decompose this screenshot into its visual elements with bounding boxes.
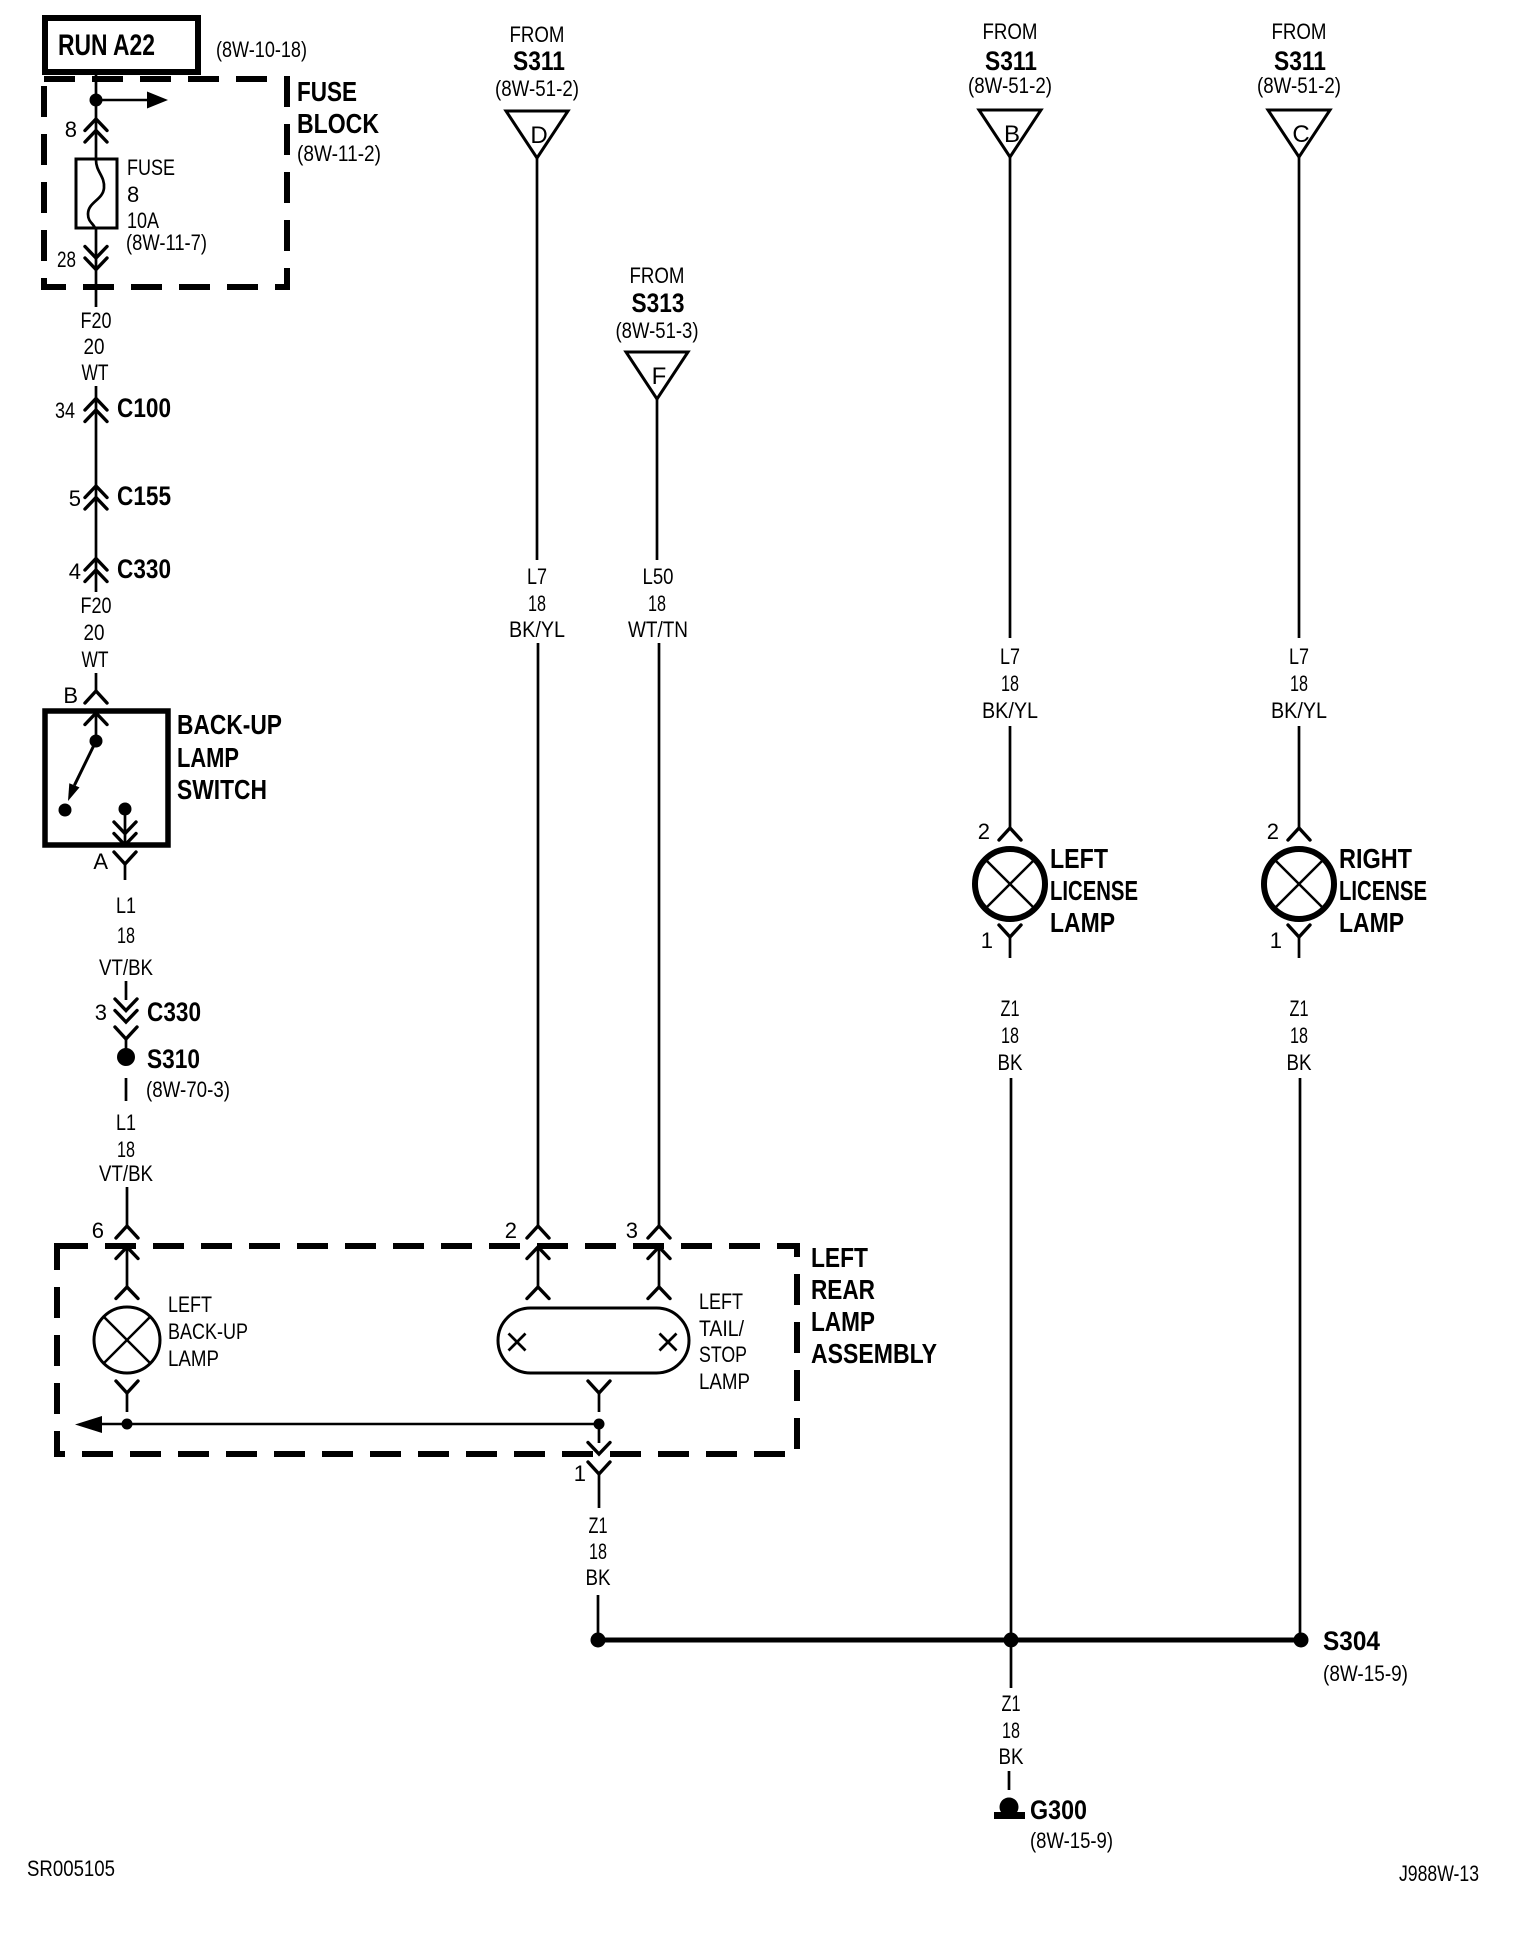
label LEFT LICENSE LAMP <box>1050 843 1138 938</box>
wire below S310 <box>125 1078 128 1101</box>
junction tail lamp to bus <box>594 1419 605 1430</box>
svg-text:5: 5 <box>69 486 81 511</box>
svg-text:18: 18 <box>648 591 666 616</box>
svg-text:STOP: STOP <box>699 1342 747 1367</box>
wire label F20 20 WT (below C330) <box>81 593 112 672</box>
label (8W-10-18) <box>216 37 307 62</box>
wire B down <box>1009 157 1012 638</box>
label FROM S311 (C) <box>1257 19 1341 98</box>
connector pin A <box>114 852 136 880</box>
wire pin 1 to ground bus <box>597 1595 600 1640</box>
svg-text:S304: S304 <box>1323 1626 1380 1656</box>
svg-text:BK/YL: BK/YL <box>1271 698 1327 723</box>
splice S310 <box>117 1044 200 1074</box>
pin 1 label <box>574 1461 586 1486</box>
svg-text:B: B <box>1004 121 1020 148</box>
svg-text:ASSEMBLY: ASSEMBLY <box>811 1338 937 1369</box>
wire to switch pin B <box>95 673 98 691</box>
svg-text:FUSE: FUSE <box>127 155 175 180</box>
svg-text:BACK-UP: BACK-UP <box>168 1319 248 1344</box>
svg-text:FROM: FROM <box>510 22 565 47</box>
page connector F <box>626 352 688 399</box>
svg-text:6: 6 <box>92 1218 104 1243</box>
wire fuse to pin 28 <box>95 228 98 307</box>
wire label L7 18 BK/YL (D) <box>509 564 565 642</box>
pin 2 label (left license) <box>978 819 990 844</box>
svg-text:LEFT: LEFT <box>168 1292 212 1317</box>
svg-text:(8W-51-2): (8W-51-2) <box>968 73 1052 98</box>
connector pin B <box>85 691 107 703</box>
svg-text:18: 18 <box>1002 1718 1020 1743</box>
svg-text:(8W-11-2): (8W-11-2) <box>297 141 381 166</box>
svg-text:18: 18 <box>1001 1023 1019 1048</box>
wire bus to ground <box>1010 1640 1013 1688</box>
ground bus wire <box>598 1638 1301 1643</box>
svg-text:1: 1 <box>574 1461 586 1486</box>
svg-text:FUSE: FUSE <box>297 76 357 107</box>
svg-text:FROM: FROM <box>1272 19 1327 44</box>
svg-text:LAMP: LAMP <box>1339 907 1404 938</box>
pin B label <box>63 683 78 708</box>
wire label Z1 18 BK (ground) <box>999 1691 1024 1769</box>
wire RUN A22 to fuse <box>95 72 98 160</box>
svg-text:3: 3 <box>626 1218 638 1243</box>
svg-text:(8W-51-3): (8W-51-3) <box>616 318 699 343</box>
fuse 8 10A <box>76 159 117 228</box>
svg-text:18: 18 <box>1290 1023 1308 1048</box>
wire label Z1 18 BK (B) <box>998 996 1023 1075</box>
page connector D <box>506 111 568 158</box>
svg-text:REAR: REAR <box>811 1274 875 1305</box>
pin 2 entry chevrons and wire <box>527 1247 549 1299</box>
label FROM S311 (D) <box>495 22 579 101</box>
fuse block outline (dashed) <box>44 79 287 287</box>
label (8W-70-3) <box>146 1077 230 1102</box>
wire label L50 18 WT/TN <box>628 564 688 642</box>
connector pin 1 <box>588 1462 610 1508</box>
svg-text:BK: BK <box>586 1565 611 1590</box>
svg-text:8: 8 <box>127 182 139 207</box>
page connector C <box>1268 110 1330 157</box>
wire D to pin 2 <box>537 643 540 1226</box>
label FUSE BLOCK (8W-11-2) <box>297 76 381 166</box>
back-up lamp ground pin <box>116 1381 138 1412</box>
node RUN A22 (ignition feed) <box>45 18 198 72</box>
left license lamp <box>975 849 1045 919</box>
left back-up lamp <box>94 1307 160 1373</box>
svg-text:18: 18 <box>589 1539 607 1564</box>
svg-text:4: 4 <box>69 559 81 584</box>
pin 8 label <box>65 117 77 142</box>
svg-text:(8W-51-2): (8W-51-2) <box>1257 73 1341 98</box>
connector pin 3 <box>648 1226 670 1238</box>
svg-text:2: 2 <box>505 1218 517 1243</box>
wire F to pin 3 <box>658 643 661 1226</box>
svg-text:BACK-UP: BACK-UP <box>177 709 282 740</box>
connector C330 (bottom) <box>115 997 201 1049</box>
wire bus to pin 1 <box>598 1424 601 1443</box>
switch contact A <box>119 803 132 816</box>
svg-text:(8W-11-7): (8W-11-7) <box>126 230 207 255</box>
pin 6 entry chevrons and wire <box>116 1247 138 1299</box>
svg-text:BK: BK <box>999 1744 1024 1769</box>
svg-text:S311: S311 <box>513 46 565 76</box>
svg-text:LAMP: LAMP <box>168 1346 219 1371</box>
svg-text:S311: S311 <box>985 46 1037 76</box>
page connector B <box>979 110 1041 157</box>
pin 2 label <box>505 1218 517 1243</box>
wire right license to ground bus <box>1299 1078 1302 1640</box>
label (8W-15-9) S304 <box>1323 1661 1408 1686</box>
svg-text:S310: S310 <box>147 1044 200 1074</box>
svg-text:BK/YL: BK/YL <box>982 698 1038 723</box>
svg-text:34: 34 <box>55 398 75 423</box>
svg-text:Z1: Z1 <box>1001 996 1020 1021</box>
connector pin 2 (left license) <box>999 828 1021 840</box>
svg-text:RUN A22: RUN A22 <box>58 29 155 62</box>
switch wire contact A to pin A <box>114 809 136 845</box>
connector C330 (top) <box>69 554 171 584</box>
svg-text:2: 2 <box>1267 819 1279 844</box>
wire to lamp assembly pin 6 <box>126 1187 129 1226</box>
connector pin 2 (right license) <box>1288 828 1310 840</box>
wire label Z1 18 BK (left) <box>586 1513 611 1590</box>
svg-text:1: 1 <box>1270 928 1282 953</box>
svg-text:J988W-13: J988W-13 <box>1399 1861 1479 1886</box>
svg-text:18: 18 <box>1290 671 1308 696</box>
wire label L1 18 VT/BK <box>99 893 153 980</box>
connector pin 1 (right license) <box>1288 925 1310 958</box>
svg-text:2: 2 <box>978 819 990 844</box>
svg-text:TAIL/: TAIL/ <box>699 1316 745 1341</box>
tail lamp ground pin <box>588 1381 610 1412</box>
svg-text:(8W-70-3): (8W-70-3) <box>146 1077 230 1102</box>
right license lamp <box>1264 849 1334 919</box>
svg-text:D: D <box>530 122 547 149</box>
svg-text:L7: L7 <box>1289 644 1309 669</box>
wire to C100 <box>95 386 98 592</box>
svg-text:BK: BK <box>1287 1050 1312 1075</box>
pin 3 label <box>626 1218 638 1243</box>
svg-text:VT/BK: VT/BK <box>99 955 153 980</box>
svg-text:LEFT: LEFT <box>811 1242 868 1273</box>
svg-text:3: 3 <box>95 1000 107 1025</box>
label RIGHT LICENSE LAMP <box>1339 843 1427 938</box>
pin 2 label (right license) <box>1267 819 1279 844</box>
back-up lamp switch box <box>45 711 168 845</box>
label (8W-15-9) G300 <box>1030 1828 1113 1853</box>
junction dot <box>90 94 103 107</box>
wire F down <box>656 399 659 560</box>
svg-text:LICENSE: LICENSE <box>1339 875 1427 906</box>
svg-text:L50: L50 <box>643 564 674 589</box>
svg-text:1: 1 <box>981 928 993 953</box>
switch contact left <box>59 804 72 817</box>
wire to G300 <box>1008 1771 1011 1790</box>
pin 6 label <box>92 1218 104 1243</box>
svg-text:Z1: Z1 <box>1002 1691 1021 1716</box>
pin A label <box>93 849 108 874</box>
label BACK-UP LAMP SWITCH <box>177 709 282 805</box>
arrow to other circuits <box>102 92 168 109</box>
svg-text:LEFT: LEFT <box>1050 843 1108 874</box>
svg-text:WT/TN: WT/TN <box>628 617 688 642</box>
svg-text:SWITCH: SWITCH <box>177 774 267 805</box>
pin 1 label (right license) <box>1270 928 1282 953</box>
wire label L7 18 BK/YL (B) <box>982 644 1038 723</box>
connector C100 <box>55 393 171 423</box>
svg-text:28: 28 <box>57 247 76 272</box>
switch blade with arrow <box>68 741 96 801</box>
pin 1 label (left license) <box>981 928 993 953</box>
svg-text:(8W-15-9): (8W-15-9) <box>1323 1661 1408 1686</box>
svg-text:LAMP: LAMP <box>699 1369 750 1394</box>
svg-text:20: 20 <box>84 620 105 645</box>
pin 1 exit chevron <box>588 1443 610 1455</box>
switch common contact <box>90 735 103 748</box>
label LEFT BACK-UP LAMP <box>168 1292 248 1371</box>
left rear lamp assembly outline (dashed) <box>57 1246 797 1454</box>
svg-text:A: A <box>93 849 108 874</box>
svg-text:F20: F20 <box>81 308 112 333</box>
svg-text:LAMP: LAMP <box>811 1306 875 1337</box>
switch pin B entry chevron <box>85 713 107 725</box>
connector pin 8 (double chevron) <box>85 119 107 142</box>
svg-text:8: 8 <box>65 117 77 142</box>
svg-text:S313: S313 <box>632 288 685 318</box>
assembly ground arrow <box>75 1416 102 1433</box>
wire to C330 pin 3 <box>125 981 128 1000</box>
svg-text:18: 18 <box>117 1137 135 1162</box>
svg-text:(8W-51-2): (8W-51-2) <box>495 76 579 101</box>
svg-text:VT/BK: VT/BK <box>99 1161 153 1186</box>
pin 3 entry chevrons and wire <box>648 1247 670 1299</box>
svg-text:(8W-10-18): (8W-10-18) <box>216 37 307 62</box>
label LEFT REAR LAMP ASSEMBLY <box>811 1242 937 1369</box>
svg-text:F: F <box>652 363 667 390</box>
wire label L7 18 BK/YL (C) <box>1271 644 1327 723</box>
svg-text:L7: L7 <box>527 564 547 589</box>
svg-text:Z1: Z1 <box>1290 996 1309 1021</box>
svg-text:18: 18 <box>117 923 135 948</box>
svg-text:LAMP: LAMP <box>1050 907 1115 938</box>
svg-text:C100: C100 <box>117 393 171 423</box>
svg-text:BK/YL: BK/YL <box>509 617 565 642</box>
switch wire to common <box>95 713 98 741</box>
ground bus wire in assembly <box>102 1423 598 1426</box>
wire B to lamp <box>1009 726 1012 828</box>
svg-text:L1: L1 <box>116 1110 136 1135</box>
junction back-up lamp to bus <box>122 1419 133 1430</box>
splice S304 <box>1294 1626 1381 1656</box>
label SR005105 <box>27 1856 115 1881</box>
connector pin 6 <box>116 1226 138 1238</box>
connector pin 2 <box>527 1226 549 1238</box>
svg-text:LAMP: LAMP <box>177 742 239 773</box>
svg-text:WT: WT <box>82 360 109 385</box>
svg-text:18: 18 <box>1001 671 1019 696</box>
svg-text:B: B <box>63 683 78 708</box>
connector pin 28 (double chevron) <box>85 247 107 270</box>
svg-text:L1: L1 <box>116 893 136 918</box>
svg-text:LICENSE: LICENSE <box>1050 875 1138 906</box>
svg-text:C: C <box>1292 121 1309 148</box>
connector C155 <box>69 481 171 511</box>
wire label L1 18 VT/BK (lower) <box>99 1110 153 1186</box>
svg-text:RIGHT: RIGHT <box>1339 843 1412 874</box>
splice junction middle <box>1004 1633 1019 1648</box>
wire label F20 20 WT <box>81 308 112 385</box>
svg-text:C330: C330 <box>147 997 201 1027</box>
svg-text:(8W-15-9): (8W-15-9) <box>1030 1828 1113 1853</box>
wire C down <box>1298 157 1301 638</box>
svg-text:F20: F20 <box>81 593 112 618</box>
svg-text:FROM: FROM <box>630 263 685 288</box>
label LEFT TAIL/ STOP LAMP <box>699 1289 750 1394</box>
label J988W-13 <box>1399 1861 1479 1886</box>
label FROM S311 (B) <box>968 19 1052 98</box>
wire left license to ground bus <box>1010 1078 1013 1640</box>
pin 3 label (C330) <box>95 1000 107 1025</box>
svg-text:C155: C155 <box>117 481 171 511</box>
svg-text:Z1: Z1 <box>589 1513 608 1538</box>
splice junction left <box>591 1633 606 1648</box>
svg-text:S311: S311 <box>1274 46 1326 76</box>
svg-text:G300: G300 <box>1030 1795 1087 1825</box>
label FROM S313 (F) <box>616 263 699 343</box>
svg-text:20: 20 <box>84 334 105 359</box>
svg-text:18: 18 <box>528 591 546 616</box>
svg-text:BK: BK <box>998 1050 1023 1075</box>
wire D down <box>536 158 539 560</box>
svg-text:C330: C330 <box>117 554 171 584</box>
svg-text:LEFT: LEFT <box>699 1289 743 1314</box>
left tail/stop lamp (dual filament) <box>498 1308 689 1373</box>
pin 28 label <box>57 247 76 272</box>
svg-text:WT: WT <box>82 647 109 672</box>
svg-text:L7: L7 <box>1000 644 1020 669</box>
svg-text:SR005105: SR005105 <box>27 1856 115 1881</box>
ground G300 <box>994 1795 1087 1825</box>
label FUSE 8 10A (8W-11-7) <box>126 155 207 255</box>
wire C to lamp <box>1298 726 1301 828</box>
wire label Z1 18 BK (C) <box>1287 996 1312 1075</box>
svg-text:FROM: FROM <box>983 19 1038 44</box>
connector pin 1 (left license) <box>999 925 1021 958</box>
svg-text:BLOCK: BLOCK <box>297 108 379 139</box>
